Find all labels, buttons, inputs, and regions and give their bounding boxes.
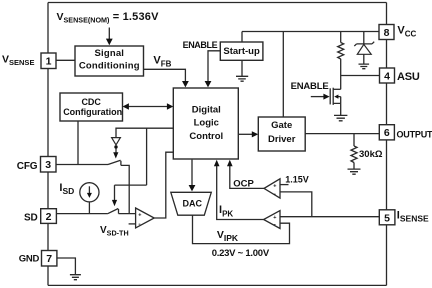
wire DLC switch-control net <box>116 128 173 137</box>
wire VFB from Signal Conditioning to Digital Logic Control <box>144 69 186 81</box>
wire ISD to SD net <box>88 202 90 214</box>
svg-text:-: - <box>138 221 140 228</box>
svg-text:0.23V ~ 1.00V: 0.23V ~ 1.00V <box>212 248 270 259</box>
wire Gate Driver output to pin6 <box>305 133 379 135</box>
svg-text:+: + <box>273 215 276 221</box>
svg-text:7: 7 <box>46 253 52 265</box>
svg-text:GND: GND <box>19 253 40 264</box>
box Digital Logic Control <box>173 88 238 159</box>
DAC trapezoid <box>171 192 212 215</box>
switch SD blade <box>108 209 119 214</box>
bidirectional arrow CDC to Digital Logic Control <box>127 106 170 108</box>
box Signal Conditioning <box>75 46 144 76</box>
resistor 30k drop from OUTPUT wire <box>353 134 355 146</box>
svg-text:6: 6 <box>384 127 390 139</box>
svg-text:Conditioning: Conditioning <box>79 60 140 71</box>
wire Start-up to VCC rail <box>241 32 243 43</box>
wire pin1 to Signal Conditioning <box>56 59 75 61</box>
svg-text:1: 1 <box>46 56 52 68</box>
svg-text:SD: SD <box>24 213 38 224</box>
svg-text:30kΩ: 30kΩ <box>359 149 383 160</box>
svg-text:2: 2 <box>46 211 52 223</box>
ground below Start-up <box>236 60 248 81</box>
VCC rail wire <box>242 31 379 33</box>
wire CDC bottom to CFG net <box>77 121 79 165</box>
svg-text:4: 4 <box>384 70 390 82</box>
junction dot <box>114 145 117 148</box>
wire pin7 to ground <box>57 258 75 274</box>
stub 1.15V reference <box>280 184 289 186</box>
wire CFG from pin3 <box>56 164 108 166</box>
svg-text:+: + <box>138 212 141 218</box>
ground below zener <box>359 64 370 69</box>
svg-text:ENABLE: ENABLE <box>291 81 329 92</box>
wire IPK output to DLC <box>217 166 264 220</box>
ground below mosfet source <box>334 115 347 120</box>
arrow DLC to Gate Driver <box>238 133 254 135</box>
svg-text:Configuration: Configuration <box>63 107 122 117</box>
comparator OCP <box>264 179 280 198</box>
pin 4 <box>380 68 395 83</box>
pin 8 <box>379 25 394 40</box>
svg-text:Digital: Digital <box>192 104 221 115</box>
pin 5 <box>379 210 395 225</box>
pin 3 <box>41 157 57 173</box>
svg-text:OUTPUT: OUTPUT <box>397 129 432 139</box>
zener diode on VCC rail <box>363 32 365 44</box>
wire DAC output VIPK loop <box>193 215 290 243</box>
comparator VSD-TH <box>136 208 155 228</box>
svg-text:Start-up: Start-up <box>223 46 260 57</box>
svg-text:DAC: DAC <box>183 198 203 208</box>
box Gate Driver <box>258 117 305 151</box>
stub VSD-TH reference input <box>129 223 136 225</box>
svg-text:OCP: OCP <box>233 178 254 189</box>
svg-text:-: - <box>274 191 276 198</box>
arrow VSENSE(NOM) into Signal Conditioning <box>108 28 110 41</box>
wire Gate Driver supply from VCC rail <box>282 32 284 118</box>
wire comparator output to DLC <box>154 152 173 218</box>
wire SD switch to comparator <box>119 213 136 215</box>
resistor VCC-ASU <box>340 32 342 43</box>
wire ISENSE from pin5 to IPK comparator <box>280 216 379 218</box>
wire OCP minus input from ISENSE <box>280 192 312 217</box>
pin 7 <box>42 251 57 267</box>
pin 2 <box>41 209 57 224</box>
arrow onto CFG switch <box>115 149 117 153</box>
control branch to SD switch <box>115 128 147 200</box>
pin 6 <box>379 125 394 140</box>
current source ISD circle <box>80 183 99 202</box>
chip outline left border <box>47 3 49 286</box>
wire ASU to pin4 <box>341 75 380 77</box>
arrow ENABLE to mosfet gate <box>311 96 325 98</box>
svg-text:Control: Control <box>189 131 223 142</box>
svg-text:Driver: Driver <box>268 134 296 145</box>
svg-text:Gate: Gate <box>271 120 292 131</box>
switch CFG blade <box>108 160 121 165</box>
buffer triangle (switch driver) <box>112 138 121 145</box>
mosfet Q1 <box>329 88 331 104</box>
ground at pin7 <box>70 275 81 280</box>
svg-text:CDC: CDC <box>81 97 101 107</box>
wire ENABLE to Digital Logic Control <box>208 51 220 82</box>
svg-text:5: 5 <box>384 212 390 224</box>
svg-text:Signal: Signal <box>94 48 124 59</box>
svg-text:-: - <box>274 222 276 229</box>
pin 1 <box>41 53 56 69</box>
wire SD from pin2 <box>56 213 108 215</box>
svg-text:ENABLE: ENABLE <box>183 40 218 50</box>
svg-text:Logic: Logic <box>194 118 219 129</box>
svg-text:3: 3 <box>45 159 51 171</box>
ground below 30k resistor <box>348 169 361 174</box>
chip outline top border <box>48 2 387 4</box>
wire CFG switch output down to SD net <box>121 165 129 213</box>
svg-text:+: + <box>273 183 276 189</box>
svg-text:ASU: ASU <box>397 71 420 83</box>
chip outline right border <box>386 3 388 286</box>
svg-text:1.15V: 1.15V <box>285 175 309 185</box>
box CDC Configuration <box>60 93 123 121</box>
chip outline bottom border <box>48 284 387 286</box>
wire OCP output to DLC <box>230 166 264 188</box>
arrow DLC to DAC <box>191 160 193 185</box>
svg-text:CFG: CFG <box>17 161 38 172</box>
svg-text:8: 8 <box>384 27 390 39</box>
box Start-up <box>220 42 263 60</box>
comparator IPK <box>264 211 280 229</box>
